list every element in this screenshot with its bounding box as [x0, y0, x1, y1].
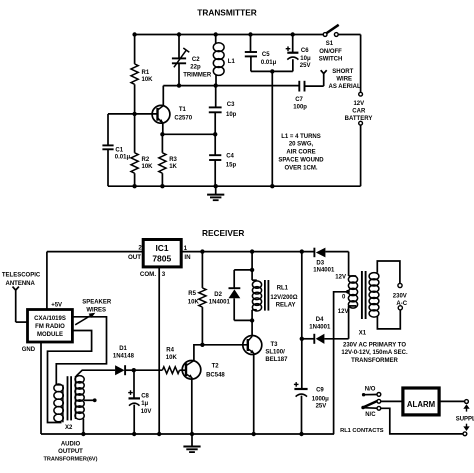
resistor R2 10K	[134, 114, 136, 153]
capacitor C7 100p	[298, 81, 300, 92]
capacitor C9 1000u 25V	[294, 388, 307, 390]
svg-text:D3: D3	[316, 260, 324, 266]
wire module speaker out 1	[56, 317, 106, 385]
svg-text:0.01μ: 0.01μ	[115, 155, 131, 161]
svg-text:WIRES: WIRES	[86, 307, 106, 313]
wire alarm to supply +	[439, 400, 464, 402]
wire centre tap to ground rail	[334, 292, 348, 434]
svg-text:SWITCH: SWITCH	[319, 57, 343, 63]
wire bottom rail (transmitter)	[108, 185, 361, 187]
svg-text:10p: 10p	[226, 112, 237, 118]
svg-text:100p: 100p	[293, 105, 307, 111]
svg-text:S1: S1	[326, 41, 334, 47]
relay contact N/C	[363, 407, 377, 410]
svg-text:N/O: N/O	[365, 387, 376, 393]
svg-text:12V: 12V	[335, 274, 346, 280]
resistor R1 10K	[134, 35, 136, 64]
node C5 top	[248, 32, 252, 36]
svg-text:T1: T1	[179, 107, 187, 113]
svg-text:ANTENNA: ANTENNA	[6, 281, 36, 287]
svg-text:C5: C5	[262, 52, 270, 58]
wire N/C to supply -	[381, 408, 463, 434]
wire T2 collector	[194, 345, 203, 361]
wire top supply rail	[135, 34, 324, 36]
svg-text:C2570: C2570	[174, 116, 192, 122]
svg-text:T3: T3	[271, 342, 279, 348]
node C5-C6 branch bottom	[270, 184, 274, 188]
svg-text:SPEAKER: SPEAKER	[82, 300, 112, 306]
X1 core	[361, 271, 363, 319]
wire to T3 base	[202, 344, 247, 346]
node C8 bottom on rail	[132, 432, 136, 436]
wire base node	[108, 113, 158, 115]
svg-text:C3: C3	[227, 102, 235, 108]
svg-text:D1: D1	[119, 346, 127, 352]
svg-text:X1: X1	[359, 330, 367, 336]
trimmer capacitor C2 22p	[178, 35, 180, 59]
svg-text:3: 3	[162, 271, 166, 278]
transformer X2 audio output	[54, 384, 63, 392]
svg-text:FM RADIO: FM RADIO	[35, 324, 65, 330]
svg-text:1K: 1K	[169, 164, 177, 170]
svg-text:A-C: A-C	[396, 301, 407, 307]
svg-text:1N4148: 1N4148	[113, 354, 135, 360]
wire emitter net	[163, 133, 215, 135]
diode D4 1N4001	[302, 338, 315, 340]
svg-text:SPACE WOUND: SPACE WOUND	[278, 158, 324, 164]
node T3 emitter on rail	[252, 432, 256, 436]
relay coil RL1 12V/200ohm	[251, 252, 253, 281]
wire X2 secondary top to D1	[76, 370, 115, 376]
node C2 top	[177, 32, 181, 36]
capacitor C5 0.01u	[250, 35, 252, 53]
node R2 bottom	[132, 184, 136, 188]
capacitor C3 10p	[215, 86, 217, 108]
svg-text:T2: T2	[212, 363, 220, 369]
node L1 bottom / C3 top	[214, 83, 218, 87]
svg-text:1000μ: 1000μ	[312, 396, 329, 402]
wire IC1 IN rail (+12V)	[181, 251, 314, 253]
svg-text:1N4001: 1N4001	[313, 268, 335, 274]
svg-text:SUPPLY: SUPPLY	[456, 416, 474, 422]
svg-text:230V: 230V	[393, 294, 407, 300]
node C3 bottom / C4 top	[213, 132, 217, 136]
svg-text:25V: 25V	[300, 63, 311, 69]
svg-text:RL1: RL1	[277, 285, 289, 291]
diode D1 1N4148	[115, 365, 125, 375]
ground (transmitter)	[215, 186, 217, 194]
svg-text:AIR CORE: AIR CORE	[286, 150, 315, 156]
svg-text:OVER 1CM.: OVER 1CM.	[284, 165, 317, 171]
svg-text:C2: C2	[192, 57, 200, 63]
node relay branch top	[250, 249, 254, 253]
wire rectifier bus	[301, 252, 303, 388]
svg-text:L1 = 4 TURNS: L1 = 4 TURNS	[281, 134, 321, 140]
wire D1 node to R4	[134, 369, 163, 371]
wire IC1 COM to ground rail	[158, 267, 160, 434]
svg-text:12V-0-12V, 150mA SEC.: 12V-0-12V, 150mA SEC.	[341, 350, 408, 356]
svg-text:RELAY: RELAY	[276, 302, 296, 308]
svg-text:CXA/1019S: CXA/1019S	[34, 316, 66, 322]
svg-text:1N4001: 1N4001	[209, 299, 231, 305]
node C4 bottom / ground	[214, 184, 218, 188]
speaker wires arrow	[75, 315, 92, 325]
node C2 bottom	[177, 83, 181, 87]
node T2 collector / R5 / T3 base	[200, 343, 204, 347]
wire module speaker out 2	[48, 331, 92, 423]
svg-text:CAR: CAR	[352, 109, 366, 115]
svg-text:TELESCOPIC: TELESCOPIC	[2, 273, 41, 279]
svg-text:10K: 10K	[188, 299, 200, 305]
svg-text:10V: 10V	[141, 409, 152, 415]
node C5/C6 junction	[270, 69, 274, 73]
svg-text:TRANSFORMER: TRANSFORMER	[351, 358, 398, 364]
svg-text:12V: 12V	[353, 101, 364, 107]
regulator IC1 7805	[143, 240, 181, 267]
svg-text:MODULE: MODULE	[37, 332, 63, 338]
svg-text:1N4001: 1N4001	[309, 324, 331, 330]
wire receiver ground rail	[41, 433, 334, 435]
svg-text:AUDIO: AUDIO	[61, 441, 81, 447]
svg-text:0.01μ: 0.01μ	[261, 60, 277, 66]
node R5 top	[200, 249, 204, 253]
node T1 emitter / R3 top	[160, 132, 164, 136]
capacitor C4 15p	[214, 134, 216, 155]
wire IC1 OUT to module +5V	[47, 251, 143, 253]
telescopic antenna	[13, 287, 19, 291]
svg-text:7805: 7805	[152, 253, 171, 263]
svg-text:IN: IN	[184, 254, 191, 261]
alarm box	[403, 388, 439, 415]
resistor R4 10K	[162, 367, 179, 374]
resistor R5 10K	[201, 252, 203, 288]
svg-text:R4: R4	[166, 347, 174, 353]
transistor T1 C2570	[152, 105, 170, 123]
svg-text:AS AERIAL: AS AERIAL	[329, 84, 361, 90]
diode D2 1N4001	[234, 269, 252, 271]
svg-text:C7: C7	[295, 97, 303, 103]
relay contact lever (common)	[361, 406, 365, 410]
svg-text:C6: C6	[301, 48, 309, 54]
svg-text:OUTPUT: OUTPUT	[58, 449, 83, 455]
svg-text:D2: D2	[214, 292, 222, 298]
svg-text:SL100/: SL100/	[265, 350, 285, 356]
svg-text:+5V: +5V	[51, 302, 62, 308]
transistor T3 SL100/BEL187	[251, 321, 253, 336]
node R1 top	[132, 32, 136, 36]
wire common to alarm	[381, 400, 403, 402]
resistor R3 1K	[161, 134, 163, 153]
svg-text:C1: C1	[115, 147, 123, 153]
svg-text:12V: 12V	[338, 309, 349, 315]
svg-text:TRIMMER: TRIMMER	[183, 73, 212, 79]
node R3 bottom	[160, 184, 164, 188]
svg-text:TRANSFORMER(6V): TRANSFORMER(6V)	[43, 457, 97, 463]
svg-text:15p: 15p	[226, 162, 237, 168]
supply arrows and label	[466, 408, 468, 412]
svg-text:X2: X2	[65, 425, 73, 431]
transformer X1 mains	[348, 252, 350, 276]
svg-text:22p: 22p	[190, 64, 201, 70]
inductor L1	[215, 35, 217, 45]
svg-text:SHORT: SHORT	[332, 69, 353, 75]
ground (receiver)	[191, 434, 193, 446]
node T1 base	[132, 112, 136, 116]
svg-text:2: 2	[138, 244, 142, 251]
svg-text:BATTERY: BATTERY	[345, 116, 373, 122]
node IC1 COM on rail	[157, 432, 161, 436]
node C9 bottom on rail	[299, 432, 303, 436]
relay contact N/O	[362, 393, 365, 396]
battery 12V CAR BATTERY terminals	[359, 92, 363, 96]
capacitor C1 0.01u	[107, 114, 109, 145]
svg-text:L1: L1	[228, 59, 236, 65]
svg-text:C4: C4	[226, 154, 234, 160]
svg-text:R5: R5	[188, 291, 196, 297]
svg-text:GND: GND	[22, 347, 36, 353]
svg-text:BEL187: BEL187	[265, 357, 288, 363]
svg-text:20 SWG,: 20 SWG,	[289, 142, 314, 148]
svg-text:COM.: COM.	[140, 271, 156, 278]
node X2 secondary bottom on rail	[81, 432, 85, 436]
svg-text:230V AC PRIMARY TO: 230V AC PRIMARY TO	[343, 342, 406, 348]
svg-text:D4: D4	[316, 317, 324, 323]
X1 primary coil	[369, 273, 379, 280]
wire module GND to rail	[40, 342, 42, 434]
svg-text:C8: C8	[141, 394, 149, 400]
switch S1	[323, 33, 327, 37]
node L1 top	[214, 32, 218, 36]
svg-text:N/C: N/C	[365, 412, 376, 418]
FM radio module CXA/1019S	[28, 310, 73, 343]
svg-text:1μ: 1μ	[141, 401, 148, 407]
svg-text:WIRE: WIRE	[336, 77, 352, 83]
wire X1 primary to 230V terminals	[377, 261, 400, 283]
svg-text:25V: 25V	[316, 403, 327, 409]
svg-text:10K: 10K	[142, 77, 154, 83]
svg-text:IC1: IC1	[155, 243, 168, 253]
svg-text:12V/200Ω: 12V/200Ω	[270, 295, 297, 301]
svg-text:10μ: 10μ	[300, 56, 311, 62]
wire battery to bottom rail	[360, 125, 362, 186]
diode D3 1N4001	[313, 248, 315, 258]
svg-text:BC548: BC548	[206, 373, 225, 379]
antenna short wire as aerial	[323, 74, 325, 86]
node X2 centre tap	[84, 399, 95, 401]
node X1 centre tap 0	[346, 290, 350, 294]
node C6 top	[291, 32, 295, 36]
svg-text:10K: 10K	[166, 355, 178, 361]
svg-text:ALARM: ALARM	[407, 400, 435, 409]
capacitor C8 1u 10V	[133, 370, 135, 398]
wire X2 secondary bottom	[82, 419, 84, 434]
transistor T2 BC548	[182, 361, 201, 380]
node T2 emitter / ground on rail	[190, 432, 194, 436]
wire collector net to C7	[163, 85, 299, 87]
svg-text:C9: C9	[316, 388, 324, 394]
svg-text:ON/OFF: ON/OFF	[319, 49, 342, 55]
node rectifier bus top	[300, 249, 304, 253]
svg-text:TRANSMITTER: TRANSMITTER	[197, 7, 256, 17]
svg-text:R2: R2	[142, 157, 150, 163]
node D1/C8/R4	[132, 368, 136, 372]
capacitor C6 10u 25V electrolytic	[292, 35, 294, 53]
svg-text:RL1 CONTACTS: RL1 CONTACTS	[340, 428, 384, 434]
wire C5/C6 branch to bottom rail	[271, 71, 273, 186]
svg-text:OUT: OUT	[128, 254, 141, 261]
wire switch to battery	[338, 34, 360, 36]
svg-text:10K: 10K	[142, 164, 154, 170]
svg-text:R3: R3	[169, 157, 177, 163]
svg-text:RECEIVER: RECEIVER	[202, 228, 244, 238]
svg-text:R1: R1	[142, 70, 150, 76]
